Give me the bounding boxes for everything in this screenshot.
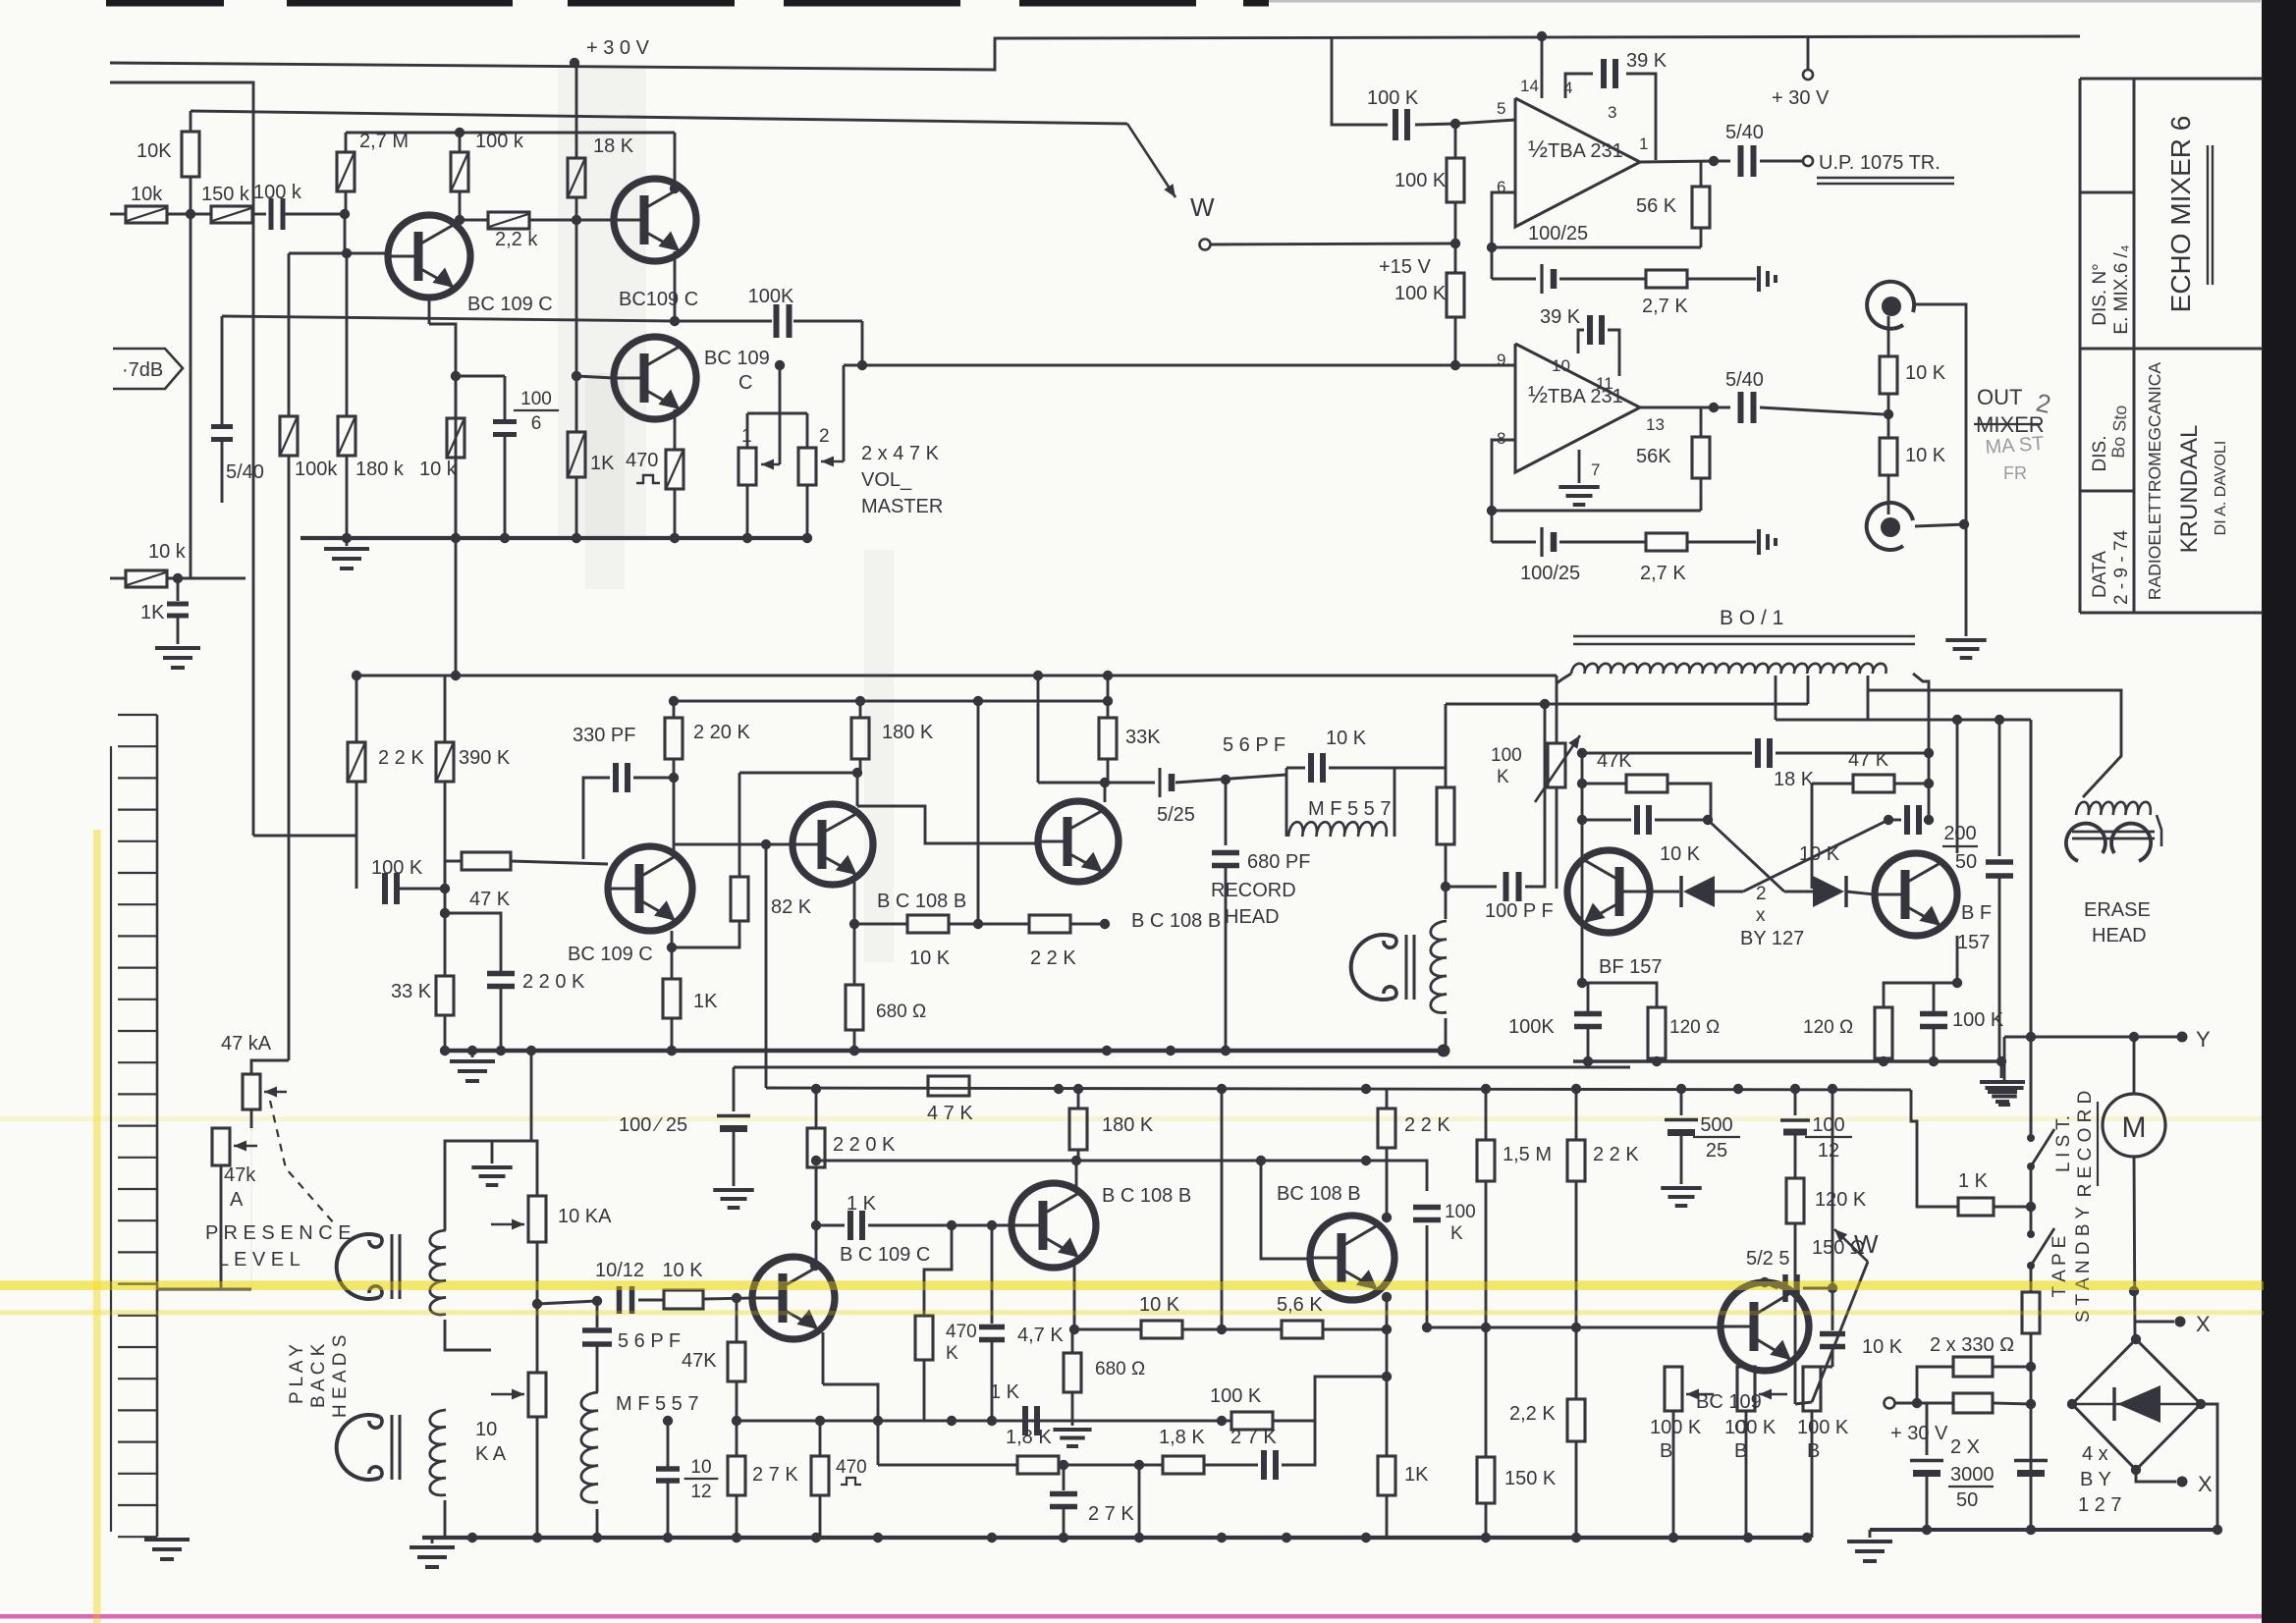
wire input bus line W — [191, 111, 1127, 124]
svg-text:47 K: 47 K — [1848, 749, 1889, 771]
capacitor 10K osc left — [1582, 819, 1631, 822]
resistor 82K feedback — [672, 921, 739, 947]
pot 47k A lower presence — [212, 1128, 230, 1165]
wire rail stub to playback — [530, 1051, 533, 1141]
wire osc to switches — [2030, 720, 2033, 1138]
ground 680 ohm — [1053, 1428, 1091, 1432]
svg-text:100: 100 — [1812, 1114, 1844, 1136]
svg-text:100 K: 100 K — [1394, 170, 1447, 191]
resistor 220K — [815, 1089, 818, 1128]
resistor 470 Q3 emitter — [674, 409, 677, 450]
svg-text:150 K: 150 K — [1504, 1468, 1557, 1489]
record ground rail — [447, 1049, 1444, 1053]
ground sideways U2 — [1757, 529, 1761, 555]
svg-text:100 k: 100 k — [475, 131, 524, 152]
resistor 47K osc left — [1582, 783, 1626, 785]
resistor 2x330 lower — [1917, 1402, 1953, 1405]
ground input2 — [155, 646, 200, 650]
resistor 1,5M — [1485, 1089, 1488, 1140]
wire U2 out to divider — [1812, 410, 1884, 414]
svg-text:KRUNDAAL: KRUNDAAL — [2176, 425, 2203, 554]
wire Q7 emitter node — [1577, 978, 1587, 988]
wire long collector line y1182 — [816, 1160, 1427, 1163]
svg-text:4 x: 4 x — [2082, 1443, 2108, 1465]
transistor Q5 BC108B — [793, 804, 873, 885]
svg-text:157: 157 — [1957, 932, 1990, 953]
svg-text:Y: Y — [2196, 1027, 2211, 1052]
node out divider — [1884, 409, 1893, 419]
wire pot bracket — [779, 365, 782, 413]
wiper arrow pot2 playback — [491, 1393, 524, 1396]
wire jacks shield — [1915, 304, 1966, 636]
svg-text:10: 10 — [475, 1419, 497, 1440]
svg-text:2 - 9 - 74: 2 - 9 - 74 — [2111, 530, 2132, 605]
svg-text:390 K: 390 K — [459, 747, 511, 769]
capacitor 200/50 — [1998, 720, 2001, 856]
ground symbol top-left block — [346, 538, 349, 546]
resistor 2,2K — [1575, 1327, 1578, 1399]
resistor 120 ohm left — [1582, 983, 1657, 1007]
svg-text:5/25: 5/25 — [1157, 804, 1195, 826]
resistor 2,7K U1 — [1559, 278, 1646, 281]
transistor Q1 BC109C — [388, 215, 470, 298]
svg-text:2,2 k: 2,2 k — [495, 229, 538, 250]
svg-text:10 KA: 10 KA — [558, 1206, 612, 1227]
transistor Q8 BF157 — [1875, 853, 1957, 936]
svg-text:10 K: 10 K — [1905, 445, 1946, 466]
transistor Q2 BC109C — [614, 179, 696, 261]
resistor 150k — [211, 206, 252, 223]
wire Q11 emitter — [1073, 1261, 1076, 1329]
svg-text:C: C — [738, 372, 752, 394]
svg-text:2 20 K: 2 20 K — [693, 722, 750, 743]
svg-text:DIS. N°: DIS. N° — [2090, 263, 2110, 326]
ground left bus — [144, 1538, 190, 1542]
wire 18K column down to Q3 base — [575, 220, 578, 376]
wire 10K cap to pot3 — [1812, 1366, 1832, 1368]
wire head1 to pot2 — [445, 1320, 491, 1350]
transistor Q11 BC108B — [1011, 1183, 1096, 1268]
node record input — [440, 884, 450, 893]
node 680PF — [1221, 775, 1230, 784]
svg-text:VOL_: VOL_ — [861, 469, 912, 491]
resistor 22K Q12 collector — [1386, 1089, 1389, 1109]
svg-text:150 Ω: 150 Ω — [1812, 1237, 1865, 1259]
wire osc cross coupling — [1743, 820, 1888, 892]
svg-text:1,5 M: 1,5 M — [1503, 1144, 1552, 1165]
transformer BO/1 primary coil — [1571, 664, 1886, 674]
svg-text:5 6 P F: 5 6 P F — [1223, 734, 1285, 756]
resistor 27K Q10 — [736, 1421, 738, 1456]
svg-text:120 Ω: 120 Ω — [1669, 1017, 1720, 1038]
svg-text:680 Ω: 680 Ω — [876, 1001, 926, 1022]
resistor 10 K record fb — [854, 923, 907, 926]
svg-text:100 ∕ 25: 100 ∕ 25 — [619, 1114, 687, 1136]
ground osc — [2000, 1061, 2003, 1078]
motor M — [2103, 1094, 2165, 1157]
resistor 10K playback — [638, 1299, 664, 1302]
svg-text:ECHO MIXER 6: ECHO MIXER 6 — [2165, 116, 2196, 313]
svg-text:BC 108 B: BC 108 B — [1277, 1183, 1361, 1205]
resistor 680 ohm bottom — [1071, 1329, 1074, 1353]
coil MF 557 record — [1288, 822, 1387, 837]
bridge rectifier 4x BY127 — [2072, 1339, 2201, 1470]
wire base line Q1 to bias — [289, 252, 347, 255]
wire record rail 2 — [674, 700, 1108, 703]
svg-text:2 2 0 K: 2 2 0 K — [522, 971, 585, 993]
transistor Q13 BC109C — [1721, 1282, 1809, 1371]
resistor 180K bottom — [1077, 1089, 1080, 1109]
wire Q12 base staircase — [1261, 1161, 1310, 1259]
capacitor 100k coupling — [269, 198, 274, 230]
terminal +30V right — [1807, 36, 1810, 70]
yellow highlighter overlay — [0, 1281, 2264, 1290]
svg-text:100 K: 100 K — [1650, 1417, 1702, 1438]
resistor 47K osc right — [1812, 783, 1853, 785]
wiper arrow pot2 — [843, 365, 846, 461]
svg-text:TBA 231: TBA 231 — [1548, 140, 1623, 162]
wire Q8 collector lead — [1956, 720, 1959, 853]
wire Q2 collector to top line — [674, 133, 677, 190]
wire W2 to record in — [253, 835, 356, 838]
svg-text:2 2 K: 2 2 K — [378, 747, 424, 769]
svg-text:2,2 K: 2,2 K — [1509, 1403, 1556, 1425]
ground record rail — [471, 1051, 474, 1057]
transistor Q12 BC108B — [1310, 1216, 1394, 1300]
svg-text:B: B — [1807, 1440, 1820, 1462]
svg-text:82 K: 82 K — [771, 896, 812, 918]
svg-text:33 K: 33 K — [391, 981, 432, 1002]
svg-text:M: M — [2122, 1111, 2147, 1144]
capacitor 10 K Q13 — [1831, 1288, 1834, 1330]
svg-text:47 kA: 47 kA — [221, 1033, 272, 1055]
resistor 33K record bias — [444, 889, 447, 976]
svg-text:2 7 K: 2 7 K — [1230, 1427, 1277, 1448]
resistor 150K — [1485, 1327, 1488, 1457]
bottom ground bus — [422, 1536, 1812, 1540]
transistor Q3 BC109C — [614, 337, 696, 419]
ground bottom right — [1869, 1530, 1872, 1538]
resistor 10 K emitter row — [1074, 1328, 1141, 1331]
node 2.7M bottom — [340, 209, 350, 219]
svg-text:2 2 K: 2 2 K — [1593, 1144, 1639, 1165]
svg-text:B: B — [1660, 1440, 1672, 1462]
resistor 22K record in — [355, 676, 358, 742]
svg-text:1 K: 1 K — [1958, 1170, 1989, 1192]
svg-text:10 K: 10 K — [1905, 362, 1946, 384]
svg-text:2 7 K: 2 7 K — [752, 1464, 798, 1486]
svg-text:120 Ω: 120 Ω — [1803, 1017, 1853, 1038]
node coupling Q2-Q3 — [670, 316, 680, 326]
wire 120K to lever base — [1795, 1402, 1812, 1404]
wire Q2 emitter to coupling node — [674, 251, 677, 321]
wire switch feed 1K — [1911, 1090, 1958, 1207]
svg-text:100/25: 100/25 — [1528, 223, 1588, 244]
svg-text:B C 109 C: B C 109 C — [840, 1244, 930, 1266]
capacitor 100/25 U2 — [1540, 527, 1543, 557]
resistor 680 ohm Q5 — [853, 924, 856, 985]
capacitor 56 PF with MF557 trap — [1285, 768, 1288, 837]
resistor 470 ohm — [819, 1421, 821, 1456]
terminal X lower — [2136, 1470, 2176, 1482]
capacitor 4,7 K — [991, 1225, 993, 1327]
capacitor 100/12 — [1794, 1089, 1797, 1115]
record head symbol — [1351, 935, 1394, 1000]
resistor 120 K — [1786, 1178, 1804, 1223]
svg-text:1: 1 — [1639, 135, 1648, 153]
svg-text:5/2 5: 5/2 5 — [1746, 1248, 1789, 1270]
svg-text:3000: 3000 — [1950, 1464, 1995, 1486]
capacitor 500/25 — [1680, 1089, 1683, 1115]
resistor 5,6 K — [1222, 1328, 1282, 1331]
svg-text:25: 25 — [1706, 1140, 1727, 1162]
svg-text:100 K: 100 K — [1797, 1417, 1849, 1438]
svg-text:2 2 K: 2 2 K — [1030, 947, 1076, 969]
transistor Q10 BC109C — [752, 1257, 835, 1339]
svg-text:ERASE: ERASE — [2084, 899, 2151, 921]
wire coil taps — [1775, 676, 1777, 720]
resistor 10K jack lower — [1887, 414, 1890, 438]
capacitor 10/12 coupling — [617, 1286, 623, 1314]
svg-text:2 7 K: 2 7 K — [1088, 1503, 1134, 1525]
resistor 100k collector Q1 — [459, 133, 462, 152]
svg-text:X: X — [2196, 1312, 2211, 1336]
node ground rail 180k — [342, 533, 352, 543]
wire row to rail — [1221, 1089, 1224, 1329]
resistor 100K divider top — [1454, 124, 1457, 158]
svg-text:+15 V: +15 V — [1379, 256, 1431, 278]
pot 100K B third — [1803, 1367, 1821, 1411]
svg-text:BC109 C: BC109 C — [619, 289, 698, 310]
wire 220K to Q10 collector — [815, 1167, 818, 1264]
svg-text:100 K: 100 K — [1724, 1417, 1777, 1438]
terminal U.P. 1075 TR. — [1803, 156, 1813, 166]
wire pot2 bottom — [536, 1417, 539, 1538]
svg-text:100 k: 100 k — [253, 182, 302, 203]
svg-text:8: 8 — [1497, 429, 1505, 448]
capacitor 10/12 lower — [667, 1421, 669, 1467]
svg-text:B O / 1: B O / 1 — [1720, 607, 1783, 629]
wire Q11 collector — [1075, 1161, 1078, 1190]
black scan marks top edge — [106, 0, 224, 7]
resistor 2x330 upper — [1917, 1367, 1953, 1403]
svg-text:BF 157: BF 157 — [1599, 956, 1662, 978]
coil MF 557 playback — [596, 1344, 599, 1392]
svg-text:+ 30 V: + 30 V — [1890, 1423, 1948, 1444]
resistor 10 K osc feed — [1445, 704, 1448, 787]
svg-text:1 K: 1 K — [990, 1381, 1020, 1403]
svg-text:4 7 K: 4 7 K — [927, 1103, 973, 1124]
svg-text:47K: 47K — [1597, 750, 1632, 772]
op-amp U1 1/2 TBA231 — [1515, 98, 1640, 227]
capacitor 100K pin5 — [1393, 109, 1398, 140]
svg-text:2: 2 — [1756, 884, 1767, 904]
svg-text:P R E S E N C E: P R E S E N C E — [205, 1222, 352, 1244]
wire pin14 to rail — [1541, 36, 1544, 98]
capacitor 680 PF — [1225, 780, 1228, 845]
svg-text:FR: FR — [2003, 463, 2027, 483]
svg-text:10K: 10K — [137, 140, 172, 162]
svg-text:2 X: 2 X — [1950, 1436, 1980, 1458]
svg-text:x: x — [1756, 905, 1766, 926]
pot 1 47K — [738, 448, 756, 485]
wire bottom feedback rail 47K — [766, 1088, 1911, 1090]
node dot on +30V rail at 18K column — [570, 58, 579, 68]
resistor 1 K switches — [1958, 1198, 1994, 1216]
svg-text:680 PF: 680 PF — [1247, 851, 1310, 873]
osc ground rail — [1573, 1059, 2001, 1062]
svg-text:180 K: 180 K — [1102, 1114, 1154, 1136]
svg-text:10 K: 10 K — [1862, 1336, 1903, 1358]
terminal X upper — [2135, 1321, 2174, 1324]
svg-text:MASTER: MASTER — [861, 496, 943, 517]
svg-text:2 2 0 K: 2 2 0 K — [833, 1134, 896, 1156]
resistor 1,8K left — [877, 1421, 879, 1465]
svg-text:100 K: 100 K — [1210, 1385, 1262, 1407]
transistor Q7 BF157 — [1567, 850, 1650, 933]
svg-text:10/12: 10/12 — [595, 1260, 644, 1281]
wire osc top row 18K — [1582, 752, 1752, 755]
svg-text:50: 50 — [1956, 1489, 1978, 1511]
svg-text:10 k: 10 k — [419, 459, 458, 480]
svg-text:BY 127: BY 127 — [1740, 928, 1804, 949]
terminal Y — [2004, 1036, 2178, 1039]
diode BY127 right — [1784, 891, 1815, 893]
wire bridge right to rail — [2201, 1404, 2217, 1530]
capacitor 100K osc right — [1933, 983, 1936, 1011]
wire presence pots — [250, 1109, 253, 1128]
capacitor 100K out Q3 — [675, 320, 772, 323]
capacitor 100/25 bottom left — [733, 1067, 736, 1111]
wire record VCC rail — [355, 675, 1557, 677]
capacitor 18K osc — [1755, 738, 1761, 768]
ground pin7 U2 — [1578, 450, 1581, 483]
capacitor 5/40 U2 out — [1714, 406, 1730, 409]
svg-text:A: A — [230, 1189, 244, 1211]
resistor 2,7M — [345, 133, 348, 152]
node record head ground — [1438, 1045, 1450, 1057]
wiper W lever — [1812, 1262, 1868, 1402]
resistor 1K Q4 emitter — [671, 947, 674, 979]
capacitor 39K U1 top — [1565, 74, 1593, 98]
playback head 1 — [337, 1234, 380, 1299]
node base Q10 — [732, 1293, 741, 1303]
ground 500/25 — [1661, 1186, 1701, 1190]
wire playback signal line — [537, 1301, 597, 1304]
svg-text:100 P F: 100 P F — [1485, 900, 1554, 922]
resistor 33K Q6 collector — [1099, 718, 1117, 759]
svg-text:180 k: 180 k — [355, 459, 405, 480]
svg-text:HEAD: HEAD — [1225, 906, 1280, 928]
wire Q13 base row — [1427, 1326, 1721, 1329]
svg-text:2 x 330 Ω: 2 x 330 Ω — [1930, 1334, 2014, 1356]
capacitor 56 PF playback — [596, 1301, 599, 1327]
pot 100K B first — [1665, 1367, 1682, 1411]
resistor 100K divider bottom — [1447, 273, 1464, 317]
capacitor 100K record in — [382, 873, 388, 904]
svg-text:R E C O R D: R E C O R D — [2075, 1091, 2096, 1198]
svg-text:56K: 56K — [1636, 446, 1671, 467]
svg-text:47K: 47K — [682, 1350, 717, 1372]
svg-text:100: 100 — [1491, 745, 1522, 766]
resistor 180K record — [859, 701, 862, 718]
capacitor 10K osc right — [1884, 815, 1893, 825]
svg-text:470: 470 — [836, 1457, 867, 1478]
svg-text:5 6 P F: 5 6 P F — [618, 1330, 681, 1352]
node collector Q1 — [455, 215, 465, 225]
capacitor 2 7 K vertical — [1063, 1465, 1065, 1490]
svg-text:13: 13 — [1646, 415, 1665, 434]
wire U2 feedback — [1492, 440, 1515, 542]
wire playback top — [445, 1141, 537, 1230]
node 100PF tap — [1441, 882, 1450, 892]
svg-text:HEAD: HEAD — [2092, 925, 2147, 947]
magenta scan line bottom — [0, 1614, 2296, 1619]
pot 10 KA lower — [536, 1242, 539, 1304]
svg-text:10 K: 10 K — [662, 1260, 703, 1281]
svg-text:·7dB: ·7dB — [122, 359, 163, 381]
svg-text:100 K: 100 K — [1367, 87, 1419, 109]
resistor 47K Q10 — [736, 1298, 738, 1342]
resistor 220K Q4 collector — [673, 701, 676, 718]
wire second top rail — [110, 82, 253, 836]
svg-text:12: 12 — [690, 1482, 711, 1502]
RCA jack 2 — [1867, 503, 1913, 550]
transistor Q4 BC109C record — [608, 846, 692, 931]
wire base Q1 — [347, 252, 389, 255]
svg-text:10k: 10k — [131, 184, 163, 205]
resistor 22 K record fb — [978, 923, 1029, 926]
svg-text:120 K: 120 K — [1815, 1189, 1867, 1211]
svg-text:1K: 1K — [693, 991, 718, 1012]
resistor 120 ohm right — [1884, 983, 1957, 1007]
wire base Q5 — [674, 843, 792, 846]
resistor 2,7K U2 — [1559, 541, 1646, 544]
arrow to W wiper — [1127, 124, 1175, 197]
svg-text:W: W — [1190, 192, 1215, 222]
svg-text:14: 14 — [1520, 77, 1539, 95]
wire feedback line y1447 — [737, 1420, 1222, 1423]
capacitor 100 K coupling Q13 — [1366, 1161, 1427, 1191]
wire feed to op-amp1 pin5 — [1332, 37, 1388, 125]
svg-text:47 K: 47 K — [469, 889, 511, 910]
svg-text:18 K: 18 K — [593, 135, 634, 157]
svg-text:B F: B F — [1961, 902, 1992, 924]
wire coil left lead — [1557, 674, 1571, 683]
resistor 56K U1 — [1700, 161, 1703, 187]
wire pots to ground rail — [746, 485, 749, 538]
wire down to master pots — [861, 321, 864, 365]
svg-text:100k: 100k — [295, 459, 338, 480]
svg-text:B C 108 B: B C 108 B — [1131, 910, 1221, 932]
resistor 2,2k — [460, 219, 488, 222]
svg-text:180 K: 180 K — [882, 722, 934, 743]
svg-text:5/40: 5/40 — [1725, 369, 1764, 391]
svg-text:L I S T.: L I S T. — [2053, 1115, 2074, 1172]
wire tap row y733 — [1776, 719, 2031, 722]
ground out mixer — [1952, 637, 1980, 639]
resistor 180k — [346, 253, 349, 416]
node U1 output — [1709, 156, 1719, 166]
resistor 10k input horizontal — [110, 213, 126, 216]
svg-text:3: 3 — [1608, 103, 1616, 122]
capacitor 330 PF — [583, 778, 610, 859]
RCA jack 1 — [1867, 282, 1914, 329]
resistor 22K right — [1575, 1089, 1578, 1140]
ground sideways U1 — [1757, 266, 1761, 292]
svg-text:½: ½ — [1528, 382, 1548, 408]
input 2 resistor 10 k — [110, 577, 126, 580]
